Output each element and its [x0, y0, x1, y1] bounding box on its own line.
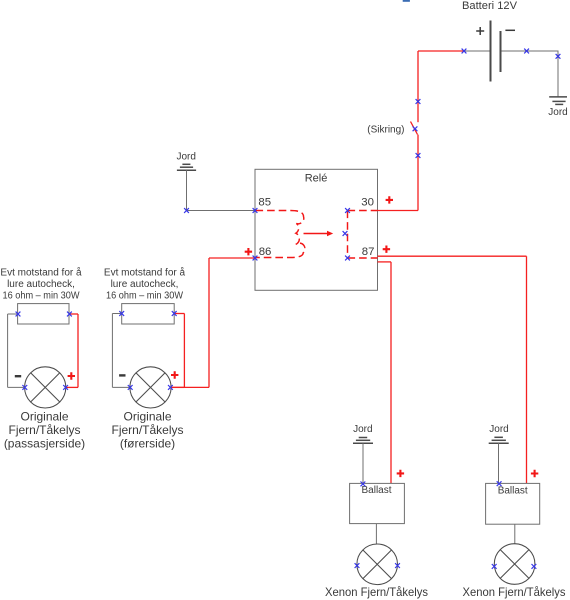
svg-text:Jord: Jord [176, 151, 195, 162]
svg-text:Jord: Jord [353, 424, 372, 435]
svg-text:Jord: Jord [489, 424, 508, 435]
svg-text:Fjern/Tåkelys: Fjern/Tåkelys [111, 423, 183, 437]
svg-text:Xenon Fjern/Tåkelys: Xenon Fjern/Tåkelys [463, 585, 566, 599]
svg-text:16 ohm – min 30W: 16 ohm – min 30W [106, 291, 184, 302]
svg-text:Originale: Originale [20, 409, 68, 423]
svg-text:Ballast: Ballast [361, 485, 391, 496]
svg-text:85: 85 [258, 197, 271, 209]
svg-text:Evt motstand for å: Evt motstand for å [0, 267, 82, 279]
svg-text:(passasjerside): (passasjerside) [4, 436, 85, 450]
svg-text:Xenon Fjern/Tåkelys: Xenon Fjern/Tåkelys [325, 585, 428, 599]
svg-text:Ballast: Ballast [498, 485, 528, 496]
svg-text:30: 30 [361, 197, 374, 209]
svg-text:Jord: Jord [548, 107, 567, 118]
svg-text:87: 87 [362, 246, 375, 258]
svg-text:(førerside): (førerside) [120, 436, 175, 450]
svg-text:16 ohm – min 30W: 16 ohm – min 30W [3, 291, 81, 302]
svg-text:Batteri 12V: Batteri 12V [462, 0, 518, 12]
svg-text:Fjern/Tåkelys: Fjern/Tåkelys [8, 423, 80, 437]
svg-text:lure autocheck,: lure autocheck, [111, 279, 179, 290]
svg-text:lure autocheck,: lure autocheck, [7, 279, 75, 290]
svg-text:Evt motstand for å: Evt motstand for å [104, 267, 186, 279]
svg-text:Originale: Originale [123, 409, 171, 423]
svg-text:86: 86 [259, 246, 272, 258]
svg-text:(Sikring): (Sikring) [367, 125, 404, 136]
svg-text:Relé: Relé [305, 172, 328, 184]
